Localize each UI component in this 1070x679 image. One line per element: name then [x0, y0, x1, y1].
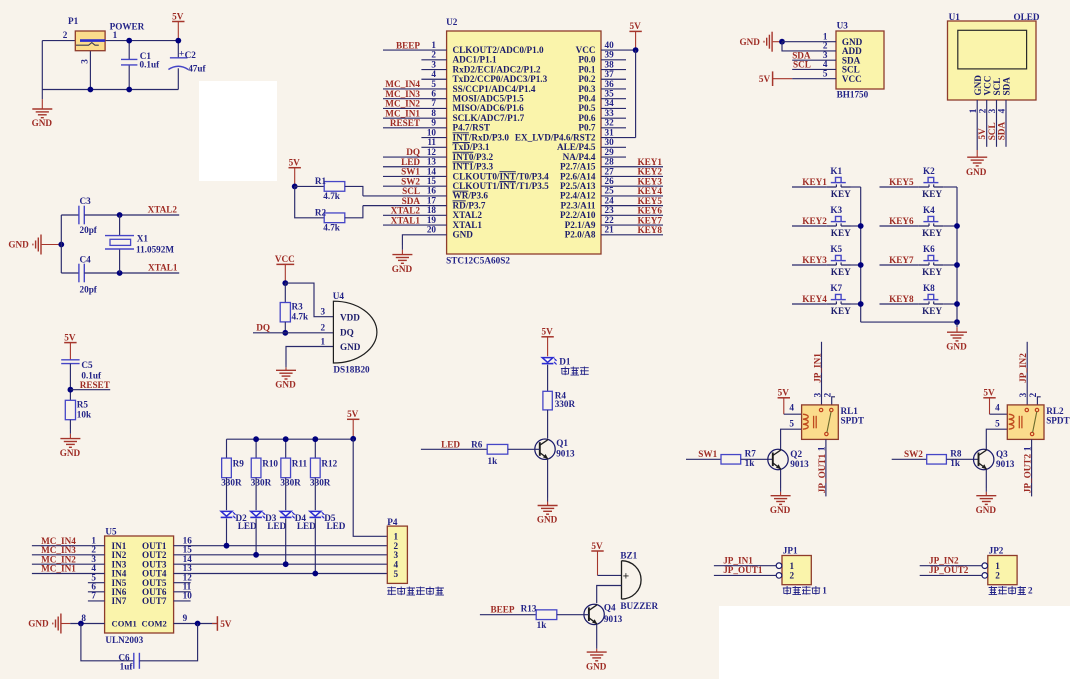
label 水泵接口2	[989, 586, 998, 595]
ground below Q1	[547, 498, 549, 502]
wire Q3 emitter down	[985, 470, 987, 488]
svg-text:9013: 9013	[556, 448, 575, 458]
svg-text:JP_IN2: JP_IN2	[1018, 353, 1028, 383]
svg-text:5: 5	[789, 419, 794, 429]
wire U2 pin 28 net KEY1	[601, 166, 663, 168]
ground below Q2	[780, 488, 782, 492]
svg-text:P2.1/A9: P2.1/A9	[565, 220, 596, 230]
svg-text:KEY7: KEY7	[889, 255, 914, 265]
wire U2 pin 2 stub	[421, 59, 446, 61]
wire JP_IN1 vertical	[821, 342, 823, 405]
wire RL2 pin2 stub	[1037, 397, 1040, 405]
svg-text:GND: GND	[60, 448, 81, 458]
svg-text:RD/P3.7: RD/P3.7	[453, 200, 486, 210]
resistor R12	[310, 458, 320, 478]
svg-text:9013: 9013	[790, 459, 809, 469]
resistor R1	[324, 182, 345, 192]
svg-text:RESET: RESET	[390, 118, 420, 128]
svg-text:11.0592M: 11.0592M	[136, 245, 174, 255]
svg-text:9: 9	[431, 118, 436, 128]
wire 5V to RL1 pin4	[784, 413, 802, 415]
wire MC_IN2 to U5	[32, 563, 105, 565]
wire U2 pin 6 net MC_IN3	[383, 98, 447, 100]
junction rail 5V	[350, 436, 356, 442]
svg-text:MC_IN1: MC_IN1	[41, 564, 76, 574]
power 5V at U3	[772, 71, 774, 86]
capacitor C4	[78, 264, 80, 283]
wire 5V rail above R9-R12	[227, 438, 354, 440]
svg-text:Q1: Q1	[556, 438, 568, 448]
white patch bottom-right	[719, 606, 1070, 679]
wire 5V to RL2 pin4	[990, 413, 1008, 415]
connector P4 body	[387, 526, 407, 583]
wire RESET	[70, 389, 110, 391]
wire U2 pin 17 net SDA	[363, 205, 447, 207]
wire U2 pin 33 stub	[601, 117, 626, 119]
svg-text:1: 1	[822, 585, 827, 595]
wire RL1 pin2 stub	[832, 397, 835, 405]
svg-text:SCL: SCL	[987, 122, 997, 140]
svg-text:P0.1: P0.1	[578, 64, 596, 74]
svg-text:U3: U3	[837, 21, 849, 31]
wire DQ	[253, 332, 333, 334]
wire K8 to bus	[943, 303, 957, 305]
wire bottom rail	[42, 89, 178, 91]
svg-text:5V: 5V	[977, 128, 987, 140]
svg-text:ULN2003: ULN2003	[105, 635, 143, 645]
wire U2 pin 39 stub	[601, 59, 626, 61]
svg-text:P1: P1	[68, 16, 79, 26]
wire U2 pin 11 stub	[421, 146, 446, 148]
svg-text:LED: LED	[238, 521, 257, 531]
power 5V at COM2	[216, 616, 218, 631]
wire U2 pin 20 to ground	[402, 235, 446, 245]
svg-text:GND: GND	[946, 341, 967, 351]
key switch K5	[826, 264, 836, 266]
svg-text:XTAL1: XTAL1	[453, 220, 483, 230]
svg-text:DQ: DQ	[256, 323, 270, 333]
svg-text:K2: K2	[923, 166, 935, 176]
svg-text:36: 36	[605, 79, 615, 89]
svg-text:5: 5	[394, 569, 399, 579]
wire D2 to OUT1	[226, 519, 228, 546]
svg-text:STC12C5A60S2: STC12C5A60S2	[446, 256, 510, 266]
svg-text:GND: GND	[966, 167, 987, 177]
wire Q4 emitter down	[596, 625, 598, 646]
svg-text:KEY7: KEY7	[638, 215, 663, 225]
svg-text:KEY3: KEY3	[638, 176, 663, 186]
svg-text:C2: C2	[185, 50, 197, 60]
svg-text:5V: 5V	[220, 619, 232, 629]
svg-text:C3: C3	[80, 196, 92, 206]
wire C6 left	[81, 624, 134, 661]
junction XTAL1/crystal	[117, 270, 123, 276]
label 水泵接口1	[783, 586, 792, 595]
led D4	[280, 511, 291, 516]
svg-text:11: 11	[427, 137, 436, 147]
led D2	[221, 511, 232, 516]
wire C3 left	[61, 214, 79, 216]
svg-text:10: 10	[183, 591, 193, 601]
svg-text:DQ: DQ	[406, 147, 420, 157]
svg-text:GND: GND	[275, 380, 296, 390]
svg-text:1k: 1k	[488, 456, 499, 466]
wire R3 top	[284, 283, 286, 302]
svg-text:K1: K1	[830, 166, 842, 176]
junction crystal gnd	[58, 242, 64, 248]
ic U3 BH1750 body	[836, 31, 884, 89]
svg-text:18: 18	[427, 205, 437, 215]
junction at C1 top	[126, 38, 132, 44]
svg-text:R10: R10	[262, 458, 278, 468]
svg-text:COM2: COM2	[141, 619, 166, 629]
resistor R2	[324, 213, 345, 223]
junction right bus	[954, 223, 960, 229]
svg-text:ALE/P4.5: ALE/P4.5	[557, 142, 596, 152]
svg-text:330R: 330R	[310, 478, 331, 488]
svg-text:VDD: VDD	[340, 312, 360, 322]
svg-text:WR/P3.6: WR/P3.6	[453, 191, 489, 201]
svg-text:19: 19	[427, 215, 437, 225]
svg-text:R2: R2	[315, 207, 327, 217]
svg-text:MC_IN2: MC_IN2	[385, 99, 420, 109]
svg-text:17: 17	[427, 195, 437, 205]
svg-text:13: 13	[427, 157, 437, 167]
resistor R8	[927, 455, 947, 465]
svg-text:7: 7	[91, 591, 96, 601]
wire R1 to SCL	[345, 186, 363, 196]
svg-text:IN7: IN7	[112, 596, 127, 606]
wire rail to R11	[285, 439, 287, 458]
svg-text:KEY6: KEY6	[889, 216, 914, 226]
wire R5 to gnd	[69, 420, 71, 429]
junction RESET	[68, 387, 74, 393]
svg-text:+: +	[623, 571, 630, 583]
wire U5 pin 11 stub	[174, 591, 191, 593]
wire U1 pin1 to gnd	[976, 100, 978, 150]
svg-text:GND: GND	[586, 661, 607, 671]
resistor R4	[543, 391, 552, 410]
capacitor C6	[133, 653, 135, 669]
wire K2 to bus	[943, 186, 957, 188]
svg-text:5V: 5V	[983, 388, 995, 398]
svg-text:R12: R12	[321, 458, 337, 468]
wire U3 pin3 SDA	[792, 59, 836, 61]
svg-text:R1: R1	[315, 176, 327, 186]
wire KEY7	[880, 264, 919, 266]
svg-text:SW2: SW2	[904, 449, 923, 459]
svg-text:3: 3	[1018, 392, 1028, 397]
pad circle JP2 pin1	[982, 563, 988, 569]
svg-text:3: 3	[431, 59, 436, 69]
wire VCC to U4 VDD	[285, 283, 333, 317]
svg-text:SDA: SDA	[402, 196, 421, 206]
wire 5V rail down to P4 pin1	[353, 439, 387, 537]
wire crystal left vertical	[60, 215, 62, 273]
wire U2 pin 32 stub	[601, 127, 626, 129]
buzzer BZ1	[622, 561, 642, 599]
wire R13 to Q4 base	[557, 614, 589, 616]
svg-text:47uf: 47uf	[188, 64, 206, 74]
svg-text:P0.5: P0.5	[578, 103, 596, 113]
svg-text:330R: 330R	[280, 478, 301, 488]
wire U1 pin3	[996, 100, 998, 147]
wire BEEP to R13	[480, 614, 536, 616]
svg-text:P2.5/A13: P2.5/A13	[560, 181, 596, 191]
svg-text:1k: 1k	[537, 620, 548, 630]
svg-text:0.1uf: 0.1uf	[140, 60, 161, 70]
svg-text:X1: X1	[137, 234, 149, 244]
svg-text:1uf: 1uf	[120, 662, 134, 672]
ground below U2	[401, 245, 403, 250]
svg-text:R7: R7	[745, 449, 757, 459]
junction P1 pin3 bottom	[88, 87, 94, 93]
svg-text:BH1750: BH1750	[837, 89, 869, 99]
resistor R10	[251, 458, 261, 478]
wire U2 pin 12 net DQ	[383, 156, 447, 158]
svg-text:Q3: Q3	[996, 449, 1008, 459]
transistor Q3	[974, 449, 994, 469]
svg-text:R3: R3	[292, 302, 304, 312]
svg-text:ADC1/P1.1: ADC1/P1.1	[453, 55, 498, 65]
svg-text:TxD2/CCP0/ADC3/P1.3: TxD2/CCP0/ADC3/P1.3	[453, 74, 548, 84]
capacitor C2 polarized	[170, 57, 188, 59]
junction right bus	[954, 262, 960, 268]
svg-text:20pf: 20pf	[80, 285, 98, 295]
wire R12 to D5	[314, 478, 316, 510]
ic U2 STC12C5A60S2 body	[447, 31, 601, 254]
wire U2 pin 40 VCC	[601, 49, 636, 51]
led D3	[251, 511, 262, 516]
label 步进电机接口	[387, 587, 396, 596]
wire buzzer bottom to Q4	[597, 586, 622, 604]
svg-text:GND: GND	[8, 240, 29, 250]
wire U5 OUT3 to P4	[174, 563, 388, 565]
wire R9 to D2	[226, 478, 228, 510]
connector JP2 body	[988, 556, 1017, 585]
svg-text:C4: C4	[80, 254, 92, 264]
svg-text:KEY: KEY	[922, 189, 942, 199]
svg-text:VCC: VCC	[842, 74, 862, 84]
junction DQ	[282, 330, 288, 336]
svg-text:4.7k: 4.7k	[323, 222, 340, 232]
key switch K2	[919, 186, 929, 188]
wire KEY4	[792, 303, 826, 305]
wire down to R2	[295, 186, 325, 217]
svg-text:U1: U1	[949, 12, 961, 22]
wire U2 pin 18 net XTAL2	[383, 214, 447, 216]
connector JP1 body	[782, 556, 811, 585]
svg-text:BZ1: BZ1	[620, 550, 637, 560]
wire K6 to bus	[943, 264, 957, 266]
junction XTAL2/crystal	[117, 212, 123, 218]
wire key matrix bottom	[861, 321, 957, 323]
svg-text:Q4: Q4	[604, 603, 616, 613]
svg-text:4: 4	[995, 403, 1000, 413]
svg-text:XTAL1: XTAL1	[391, 215, 421, 225]
svg-text:20: 20	[427, 225, 437, 235]
ground at crystal	[32, 244, 33, 246]
svg-text:14: 14	[427, 166, 437, 176]
junction C1 bottom	[126, 87, 132, 93]
svg-text:GND: GND	[976, 505, 997, 515]
junction U2 VCC	[633, 47, 639, 53]
wire SW1	[686, 458, 721, 460]
svg-text:JP_OUT2: JP_OUT2	[1023, 453, 1033, 493]
svg-text:MOSI/ADC5/P1.5: MOSI/ADC5/P1.5	[453, 94, 525, 104]
junction rail col2	[253, 436, 259, 442]
svg-text:K5: K5	[830, 244, 842, 254]
wire U2 pin 4 stub	[421, 78, 446, 80]
svg-text:MISO/ADC6/P1.6: MISO/ADC6/P1.6	[453, 103, 525, 113]
wire K3 to bus	[851, 225, 861, 227]
wire 5V down to pin31	[635, 50, 637, 137]
svg-text:15: 15	[427, 176, 437, 186]
svg-text:3: 3	[79, 59, 89, 64]
wire R11 to D4	[285, 478, 287, 510]
svg-text:5V: 5V	[629, 21, 641, 31]
white patch upper-left	[199, 81, 277, 181]
svg-text:P2.2/A10: P2.2/A10	[560, 210, 596, 220]
key switch K1	[826, 186, 836, 188]
resistor R5	[65, 400, 75, 419]
junction D5 OUT4	[312, 571, 318, 577]
svg-text:27: 27	[605, 166, 615, 176]
svg-text:JP1: JP1	[783, 546, 798, 556]
svg-text:GND: GND	[453, 230, 474, 240]
svg-text:KEY8: KEY8	[638, 225, 663, 235]
wire LED net to R6	[421, 448, 487, 450]
svg-text:GND: GND	[739, 37, 760, 47]
resistor R13	[536, 610, 557, 620]
wire P1 pin3 down	[89, 51, 91, 90]
svg-text:K6: K6	[923, 244, 935, 254]
svg-text:4.7k: 4.7k	[323, 191, 340, 201]
svg-text:P2.7/A15: P2.7/A15	[560, 162, 596, 172]
wire KEY6	[880, 225, 919, 227]
wire R6 to Q1 base	[508, 448, 540, 450]
wire C4 to XTAL1	[84, 272, 179, 274]
svg-text:9: 9	[183, 613, 188, 623]
svg-text:BUZZER: BUZZER	[620, 601, 658, 611]
junction right bus	[954, 301, 960, 307]
wire U2 pin 8 net MC_IN1	[383, 117, 447, 119]
svg-text:12: 12	[427, 147, 437, 157]
svg-text:LED: LED	[327, 521, 346, 531]
wire U2 pin 13 net LED	[383, 166, 447, 168]
svg-text:20pf: 20pf	[80, 225, 98, 235]
wire Q1 emitter down	[547, 460, 549, 498]
svg-text:LED: LED	[441, 440, 460, 450]
svg-text:5V: 5V	[541, 327, 553, 337]
svg-text:JP_OUT1: JP_OUT1	[817, 453, 827, 493]
wire U3 pin1	[782, 41, 836, 43]
resistor R3	[280, 303, 290, 322]
svg-text:6: 6	[431, 89, 436, 99]
svg-text:C5: C5	[81, 360, 93, 370]
wire key matrix right bus	[956, 187, 958, 322]
wire COM2 to 5V	[174, 623, 218, 625]
wire rail to R9	[226, 439, 228, 458]
svg-text:SS/CCP1/ADC4/P1.4: SS/CCP1/ADC4/P1.4	[453, 84, 536, 94]
svg-text:GND: GND	[28, 619, 49, 629]
svg-text:CLKOUT1/INT/T1/P3.5: CLKOUT1/INT/T1/P3.5	[453, 181, 550, 191]
svg-text:R11: R11	[292, 458, 308, 468]
svg-text:21: 21	[605, 225, 615, 235]
svg-text:INT/RxD/P3.0: INT/RxD/P3.0	[453, 132, 510, 142]
svg-text:COM1: COM1	[112, 619, 137, 629]
svg-text:4: 4	[431, 69, 436, 79]
svg-text:XTAL2: XTAL2	[453, 210, 483, 220]
wire JP_OUT1 vertical	[825, 439, 827, 496]
wire U3 pin2 ADD	[782, 42, 836, 51]
wire U2 pin 36 stub	[601, 88, 626, 90]
ground at U5 COM1	[52, 623, 53, 625]
wire U5 pin 5 stub	[88, 582, 105, 584]
key switch K8	[919, 303, 929, 305]
wire R3 to DQ	[284, 322, 286, 333]
wire rail to R10	[255, 439, 257, 458]
svg-text:JP_IN1: JP_IN1	[723, 556, 753, 566]
svg-text:7: 7	[431, 98, 436, 108]
wire U2 pin 25 net KEY4	[601, 195, 663, 197]
svg-text:GND: GND	[392, 264, 413, 274]
wire K5 to bus	[851, 264, 861, 266]
svg-text:P2.0/A8: P2.0/A8	[565, 230, 596, 240]
svg-text:5: 5	[431, 79, 436, 89]
capacitor C1	[121, 58, 137, 60]
svg-text:5V: 5V	[172, 11, 184, 21]
wire JP_IN2 to JP2	[920, 565, 982, 567]
svg-text:SCL: SCL	[402, 186, 420, 196]
svg-text:KEY8: KEY8	[889, 294, 914, 304]
svg-text:RESET: RESET	[80, 380, 110, 390]
wire C1 top stem	[128, 41, 130, 60]
wire U2 pin 3 stub	[421, 69, 446, 71]
wire C5 to R5	[69, 364, 71, 401]
wire P1 pin1 to C1/C2/5V	[105, 40, 179, 42]
svg-text:9013: 9013	[604, 614, 623, 624]
wire U2 pin 24 net KEY5	[601, 205, 663, 207]
svg-text:DQ: DQ	[340, 328, 354, 338]
wire U5 pin 10 stub	[174, 600, 191, 602]
svg-text:38: 38	[605, 59, 615, 69]
svg-text:R8: R8	[950, 449, 962, 459]
svg-text:1: 1	[790, 561, 795, 571]
svg-text:SDA: SDA	[1002, 77, 1012, 96]
wire U5 pin 7 stub	[88, 600, 105, 602]
junction COM2	[195, 621, 201, 627]
relay RL2 body	[1007, 405, 1044, 440]
junction rail col3	[283, 436, 289, 442]
wire U5 OUT2 to P4	[174, 554, 388, 556]
svg-text:2: 2	[321, 323, 326, 333]
svg-text:LED: LED	[401, 157, 420, 167]
wire K7 to bus	[851, 303, 861, 305]
wire D1 to R4	[547, 365, 549, 392]
wire U2 pin 37 stub	[601, 78, 626, 80]
junction D2 OUT1	[224, 543, 230, 549]
svg-text:KEY: KEY	[831, 228, 851, 238]
wire U5 OUT1 to P4	[174, 545, 388, 547]
svg-text:330R: 330R	[221, 478, 242, 488]
svg-text:8: 8	[431, 108, 436, 118]
svg-text:P0.6: P0.6	[578, 113, 596, 123]
junction rail col4	[312, 436, 318, 442]
wire U2 pin 38 stub	[601, 69, 626, 71]
svg-text:R9: R9	[233, 458, 245, 468]
svg-text:2: 2	[977, 108, 987, 113]
